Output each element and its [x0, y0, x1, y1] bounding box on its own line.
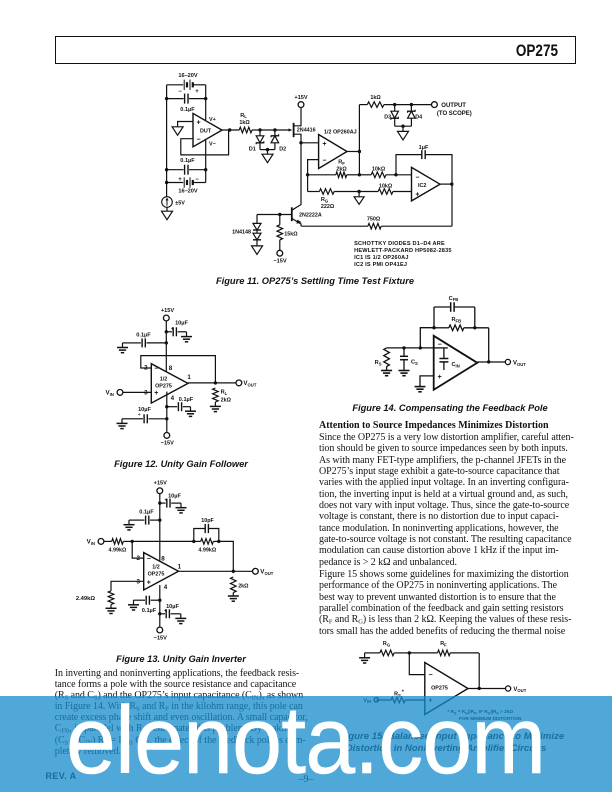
watermark text elenota.com	[66, 686, 545, 792]
terminal -15V (fig13)	[154, 627, 167, 642]
svg-text:1kΩ: 1kΩ	[239, 120, 250, 126]
caption figure 12	[0, 459, 362, 469]
wire RF-RG rail	[307, 175, 309, 192]
svg-text:0.1µF: 0.1µF	[180, 107, 195, 113]
svg-text:RF: RF	[338, 160, 345, 166]
svg-text:CFB: CFB	[449, 296, 459, 302]
resistor 2k (fig13)	[231, 577, 250, 593]
op-amp IC2	[412, 167, 441, 201]
wire IC1 - input	[308, 160, 319, 175]
svg-text:0.1µF: 0.1µF	[139, 510, 154, 516]
svg-text:+: +	[154, 390, 158, 397]
resistor 750	[301, 184, 452, 229]
svg-text:VIN: VIN	[87, 539, 95, 546]
caption figure 14	[290, 403, 610, 413]
wire to IC1 +	[301, 142, 319, 144]
ground (0.1uF fig12 bottom)	[185, 407, 196, 417]
svg-text:2kΩ: 2kΩ	[238, 583, 249, 589]
svg-text:3: 3	[137, 578, 141, 585]
svg-text:4: 4	[164, 584, 168, 591]
terminal VOUT (fig13)	[253, 568, 274, 576]
pin 2 (fig12)	[144, 365, 148, 372]
svg-text:10kΩ: 10kΩ	[379, 184, 393, 190]
capacitor 10uF (fig12 bottom)	[128, 407, 169, 423]
svg-text:1: 1	[178, 564, 182, 571]
wire pin4 (fig13)	[159, 585, 161, 627]
svg-text:10µF: 10µF	[168, 494, 181, 500]
svg-text:+: +	[197, 120, 201, 127]
op-amp (fig14)	[434, 336, 478, 390]
svg-text:RL: RL	[240, 113, 247, 119]
svg-text:D4: D4	[415, 115, 422, 121]
battery B2 16-20V (bottom)	[165, 170, 206, 195]
diode pair 1N4148	[232, 215, 261, 246]
caption figure 11	[0, 276, 612, 286]
terminal +15V	[294, 95, 307, 108]
ground (D1 D2)	[260, 148, 275, 163]
wire to output rail (fig13)	[219, 541, 234, 571]
ground (RG fig15)	[359, 653, 370, 663]
svg-text:4.99kΩ: 4.99kΩ	[198, 547, 216, 553]
capacitor CS (fig14)	[400, 348, 418, 371]
svg-text:VOUT: VOUT	[513, 360, 526, 366]
ground (0.1uF fig12)	[117, 343, 129, 353]
terminal +15V (fig12)	[161, 308, 174, 321]
resistor 4.99k feedback (fig13)	[194, 539, 221, 554]
svg-text:2N2222A: 2N2222A	[299, 212, 322, 218]
wire supply rail (fig12)	[165, 321, 167, 372]
svg-text:HEWLETT-PACKARD HP5082-2835: HEWLETT-PACKARD HP5082-2835	[354, 248, 452, 254]
ground (DUT + input)	[172, 127, 183, 136]
svg-text:+: +	[415, 191, 419, 198]
diode D4	[408, 105, 423, 127]
wire RFB to - input	[420, 328, 434, 348]
capacitor 0.1uF (fig13 bottom)	[136, 596, 162, 614]
resistor RF (fig15)	[409, 641, 479, 656]
resistor RL 1k	[239, 113, 260, 133]
resistor RG (fig15)	[365, 641, 410, 656]
wire pin3 (fig13)	[111, 581, 144, 591]
op-amp 1/2 OP275 (fig13)	[144, 553, 179, 590]
svg-text:10µF: 10µF	[138, 407, 151, 413]
pin 8 (fig12)	[169, 365, 173, 372]
capacitor CFB (fig14)	[434, 296, 475, 312]
node JFET source	[299, 141, 302, 144]
capacitor 0.1uF (lower left)	[165, 158, 207, 175]
terminal VOUT (fig14)	[505, 359, 526, 366]
svg-text:−15V: −15V	[161, 441, 174, 447]
svg-text:SCHOTTKY DIODES D1–D4 ARE: SCHOTTKY DIODES D1–D4 ARE	[354, 241, 445, 247]
resistor 10k (upper)	[358, 167, 412, 178]
resistor 10k (lower)	[359, 184, 411, 195]
svg-text:4: 4	[171, 395, 175, 402]
svg-text:0.1µF: 0.1µF	[180, 158, 195, 164]
pin 8 (fig13)	[161, 556, 165, 563]
svg-text:+15V: +15V	[154, 480, 167, 486]
svg-text:10µF: 10µF	[166, 604, 179, 610]
svg-text:D2: D2	[279, 146, 286, 152]
svg-text:10pF: 10pF	[201, 518, 214, 524]
transistor Q2 2N2222A	[292, 143, 322, 226]
ground (10uF fig12)	[181, 332, 192, 342]
wire feedback (fig12)	[141, 356, 216, 383]
svg-text:±5V: ±5V	[175, 201, 185, 207]
wire DUT output	[222, 128, 239, 131]
svg-text:1/2: 1/2	[152, 565, 160, 571]
resistor 15k	[277, 215, 298, 251]
resistor RFB (fig14)	[432, 317, 488, 331]
resistor RS (fig14)	[375, 348, 390, 367]
ground (D3 D4)	[395, 125, 412, 140]
svg-text:RF: RF	[440, 641, 447, 647]
svg-text:RG: RG	[383, 641, 390, 647]
capacitor 10uF (fig13 bottom)	[158, 604, 181, 618]
caption figure 15	[332, 731, 572, 742]
svg-text:RS: RS	[375, 360, 382, 366]
capacitor 0.1uF (fig12 top)	[129, 332, 168, 347]
svg-text:−: −	[147, 556, 151, 563]
wire D1-D2 node	[258, 128, 289, 131]
svg-text:4.99kΩ: 4.99kΩ	[108, 547, 126, 553]
ground (0.1uF fig13)	[124, 520, 135, 530]
svg-text:V+: V+	[209, 117, 216, 123]
header part number OP275	[100, 42, 558, 61]
transistor Q1 2N4416	[289, 108, 316, 143]
svg-text:+: +	[438, 374, 442, 381]
svg-text:+: +	[164, 498, 167, 503]
op-amp DUT	[193, 113, 222, 147]
svg-text:222Ω: 222Ω	[321, 204, 335, 210]
svg-text:0.1µF: 0.1µF	[142, 608, 157, 614]
diode D2	[271, 130, 286, 152]
svg-text:2N4416: 2N4416	[297, 127, 316, 133]
footer page number	[0, 774, 612, 785]
wire - input row (fig14)	[387, 346, 434, 349]
svg-text:10kΩ: 10kΩ	[372, 167, 386, 173]
wire + input to ground (fig14)	[420, 376, 434, 387]
capacitor 10uF (fig12 top)	[165, 321, 189, 337]
wire RFB to output	[488, 328, 490, 362]
resistor 4.99k input (fig13)	[104, 539, 132, 554]
right column heading	[319, 420, 549, 431]
wire output node vertical	[358, 105, 360, 175]
capacitor 10uF (fig13 top)	[158, 494, 181, 508]
svg-text:−: −	[429, 672, 433, 679]
svg-text:DUT: DUT	[200, 129, 212, 135]
svg-text:750Ω: 750Ω	[367, 216, 381, 222]
wire output (fig15)	[468, 687, 506, 690]
capacitor CIN (fig14)	[439, 348, 459, 370]
svg-text:1: 1	[187, 374, 191, 381]
svg-text:IC1 IS 1/2 OP260AJ: IC1 IS 1/2 OP260AJ	[354, 255, 409, 261]
ground (1N4148)	[252, 246, 263, 255]
svg-text:1µF: 1µF	[419, 145, 429, 151]
capacitor 10pF (fig13)	[194, 518, 219, 542]
svg-text:D1: D1	[249, 146, 256, 152]
svg-text:+15V: +15V	[294, 95, 307, 101]
svg-text:+15V: +15V	[161, 308, 174, 314]
ground (10uF fig12 bottom)	[117, 419, 129, 429]
svg-text:16–20V: 16–20V	[178, 73, 198, 79]
caption figure 13	[0, 654, 362, 664]
svg-text:−: −	[438, 342, 442, 349]
svg-text:−: −	[154, 366, 158, 373]
svg-text:IC2: IC2	[418, 183, 426, 189]
svg-text:2kΩ: 2kΩ	[336, 167, 347, 173]
wire V- rail	[205, 140, 207, 170]
svg-text:2kΩ: 2kΩ	[221, 397, 232, 403]
svg-text:1N4148: 1N4148	[232, 229, 251, 235]
terminal OUTPUT	[432, 102, 472, 117]
svg-text:1/2: 1/2	[160, 376, 168, 382]
wire base node	[257, 213, 292, 216]
svg-text:2: 2	[137, 555, 141, 562]
svg-text:OP275: OP275	[155, 383, 172, 389]
pin 3 (fig13)	[137, 578, 141, 585]
ground (RL fig12)	[210, 402, 221, 412]
pin 4 (fig13)	[164, 584, 168, 591]
terminal -15V (fig12)	[161, 433, 174, 447]
terminal -15V	[273, 250, 286, 264]
svg-text:−: −	[415, 175, 419, 182]
svg-text:VOUT: VOUT	[260, 569, 273, 576]
svg-text:8: 8	[161, 556, 165, 563]
ground (CS fig14)	[399, 371, 410, 376]
ground (+ input fig14)	[415, 387, 426, 392]
svg-text:−: −	[322, 158, 326, 165]
pin 3 (fig12)	[144, 389, 148, 396]
pin 1 (fig12)	[187, 374, 191, 381]
terminal +15V (fig13)	[154, 480, 167, 493]
capacitor 0.1uF (fig12 bottom)	[165, 397, 194, 411]
ground (2k fig13)	[228, 593, 239, 602]
resistor RG 222	[308, 189, 360, 210]
diode D1	[249, 130, 264, 152]
wire feedback loop DUT	[181, 130, 229, 155]
wire to -15V (fig12)	[166, 419, 168, 433]
op-amp IC1 1/2 OP260AJ	[319, 129, 357, 168]
svg-text:1/2 OP260AJ: 1/2 OP260AJ	[324, 129, 357, 135]
svg-text:0.1µF: 0.1µF	[136, 332, 151, 338]
pin 2 (fig13)	[137, 555, 141, 562]
svg-text:1kΩ: 1kΩ	[370, 95, 381, 101]
svg-text:+: +	[195, 89, 199, 95]
wire CFB right	[474, 307, 476, 328]
wire supply rail (fig13)	[159, 494, 161, 562]
svg-text:VOUT: VOUT	[243, 380, 256, 387]
watermark band	[0, 696, 612, 792]
pin 1 (fig13)	[178, 564, 182, 571]
svg-text:(TO SCOPE): (TO SCOPE)	[437, 111, 472, 117]
node B (fig15)	[408, 651, 411, 654]
wire + input to ground	[178, 122, 193, 127]
ground (2.49k fig13)	[106, 605, 117, 614]
op-amp 1/2 OP275 (fig12)	[151, 364, 188, 403]
resistor RL 2k (fig12)	[213, 388, 232, 403]
wire left rail	[166, 85, 168, 197]
footer REV. A	[46, 771, 77, 781]
svg-text:−: −	[178, 89, 182, 95]
node A (fig13)	[131, 540, 134, 543]
op-amp OP275 (fig15)	[425, 663, 468, 715]
note schottky	[354, 241, 452, 268]
ground (RS fig14)	[381, 367, 392, 376]
wire output (fig12)	[188, 381, 236, 384]
wire V+ rail	[205, 85, 207, 120]
ground (10uF fig13 bottom)	[175, 614, 186, 624]
wire output (fig14)	[477, 360, 505, 363]
battery B1 16-20V (top)	[167, 73, 206, 95]
terminal VIN (fig13)	[87, 539, 104, 547]
diode D3	[384, 105, 398, 127]
header rule box	[55, 36, 576, 64]
wire pin4 (fig12)	[166, 392, 168, 419]
svg-text:2.49kΩ: 2.49kΩ	[76, 596, 96, 602]
svg-text:RL: RL	[221, 389, 228, 395]
wire CFB left	[433, 307, 435, 328]
source +/-5V	[162, 197, 186, 208]
resistor RF 2k	[306, 160, 360, 178]
svg-text:+: +	[178, 177, 182, 183]
pin 4 (fig12)	[171, 395, 175, 402]
svg-text:V−: V−	[209, 141, 216, 147]
wire IC1 output	[347, 150, 361, 153]
svg-text:RFB: RFB	[451, 317, 461, 323]
ground (source)	[162, 207, 173, 219]
terminal VIN (fig12)	[105, 390, 122, 398]
svg-text:8: 8	[169, 365, 173, 372]
terminal VOUT (fig12)	[236, 380, 257, 388]
wire pin2 (fig13)	[132, 541, 144, 558]
svg-text:IC2 IS PMI OP41EJ: IC2 IS PMI OP41EJ	[354, 262, 407, 268]
svg-text:−15V: −15V	[154, 636, 167, 642]
svg-text:OUTPUT: OUTPUT	[441, 103, 466, 109]
note fig15	[448, 709, 523, 721]
capacitor 0.1uF (fig13 top)	[132, 510, 162, 525]
wire output (fig13)	[179, 570, 253, 573]
svg-text:CIN: CIN	[452, 362, 460, 368]
wire IC2 output	[440, 182, 453, 185]
svg-text:+: +	[322, 141, 326, 148]
ground (RG node)	[354, 190, 364, 205]
svg-text:+: +	[171, 326, 174, 331]
svg-text:0.1µF: 0.1µF	[179, 397, 194, 403]
wire VIN (fig12)	[123, 391, 151, 393]
svg-text:CS: CS	[411, 360, 418, 366]
capacitor 0.1uF (upper left)	[165, 94, 207, 113]
resistor 2.49k (fig13)	[76, 591, 114, 605]
wire RF to output (fig15)	[478, 653, 480, 689]
svg-text:D3: D3	[384, 115, 391, 121]
capacitor 1uF feedback	[396, 145, 452, 184]
svg-text:−: −	[197, 137, 201, 144]
ground (10uF fig13)	[176, 503, 187, 513]
wire - input (fig15)	[409, 653, 425, 675]
svg-text:−: −	[195, 177, 199, 183]
svg-text:−15V: −15V	[273, 258, 286, 264]
svg-text:OP275: OP275	[148, 572, 165, 578]
resistor RS (fig15)	[376, 689, 424, 702]
resistor 1k (output)	[359, 95, 431, 107]
svg-text:16–20V: 16–20V	[178, 189, 198, 195]
terminal VIN (fig15)	[363, 698, 378, 705]
svg-text:10µF: 10µF	[175, 321, 188, 327]
svg-text:+: +	[147, 579, 151, 586]
terminal VOUT (fig15)	[506, 686, 527, 693]
wire summing node (fig13)	[132, 540, 195, 543]
svg-text:RG: RG	[321, 197, 328, 203]
svg-text:15kΩ: 15kΩ	[284, 231, 298, 237]
ground (0.1uF fig13 bottom)	[128, 600, 139, 610]
svg-text:VIN: VIN	[105, 390, 113, 397]
